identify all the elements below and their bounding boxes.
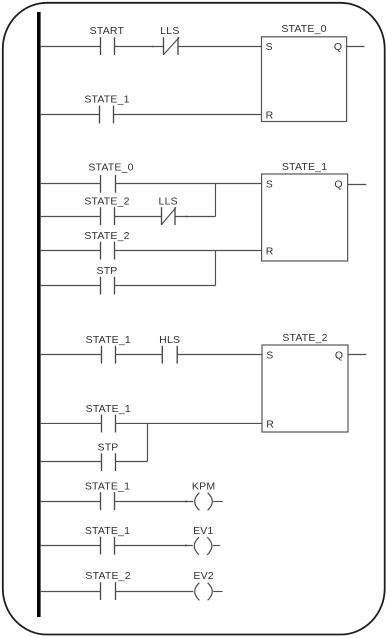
svg-text:STATE_1: STATE_1 xyxy=(85,480,130,492)
wire START to LLS xyxy=(115,46,164,48)
svg-text:Q: Q xyxy=(334,179,342,191)
wire HLS to S input of STATE_2 xyxy=(177,354,262,356)
contact STP xyxy=(102,453,116,471)
contact STATE_1 xyxy=(101,492,115,510)
svg-text:STATE_1: STATE_1 xyxy=(84,94,129,106)
svg-text:EV1: EV1 xyxy=(193,525,213,537)
contact STP xyxy=(101,277,115,295)
wire rung12 rail to STATE_2 contact xyxy=(40,591,101,593)
wire branch up to rung5 xyxy=(215,251,217,286)
wire branch up to rung3 xyxy=(215,184,217,217)
contact STATE_2 xyxy=(101,582,116,600)
contact STATE_2 xyxy=(101,207,115,225)
svg-text:STATE_1: STATE_1 xyxy=(86,334,131,346)
wire STATE_2 contact to R input of STATE_1 xyxy=(115,250,262,252)
wire STATE_0 contact to S input of STATE_1 xyxy=(116,183,262,185)
wire after coil KPM xyxy=(213,501,223,503)
svg-text:STATE_1: STATE_1 xyxy=(282,161,327,173)
wire STATE_1 contact to R input of STATE_2 xyxy=(116,422,263,424)
svg-text:STATE_2: STATE_2 xyxy=(85,570,130,582)
wire rung4 rail to STATE_2 contact xyxy=(40,216,101,218)
wire LLS to S input of STATE_0 xyxy=(178,46,262,48)
svg-text:Q: Q xyxy=(334,41,342,53)
svg-text:STP: STP xyxy=(97,441,118,453)
junction dot xyxy=(185,545,187,547)
svg-text:STP: STP xyxy=(96,265,117,277)
wire rung3 rail to STATE_0 contact xyxy=(40,183,101,185)
wire Q output of STATE_1 xyxy=(348,184,367,186)
contact STATE_1 xyxy=(102,415,116,433)
power rail xyxy=(37,12,41,617)
svg-text:S: S xyxy=(266,350,273,362)
svg-text:KPM: KPM xyxy=(192,480,215,492)
svg-text:R: R xyxy=(266,245,274,257)
coil KPM xyxy=(195,493,213,511)
junction dot xyxy=(185,501,187,503)
svg-text:LLS: LLS xyxy=(159,195,178,207)
wire rung9 rail to STP contact xyxy=(40,461,102,463)
wire after coil EV2 xyxy=(213,591,222,593)
wire STATE_2 contact to coil EV2 xyxy=(116,591,194,593)
wire Q output of STATE_2 xyxy=(348,354,366,356)
junction dot xyxy=(186,216,188,218)
svg-text:R: R xyxy=(266,418,274,430)
coil EV1 xyxy=(194,537,212,555)
svg-text:STATE_0: STATE_0 xyxy=(281,23,326,35)
wire rung8 rail to STATE_1 contact xyxy=(40,422,102,424)
svg-text:S: S xyxy=(266,41,273,53)
wire LLS to branch junction xyxy=(175,216,216,218)
contact STATE_1 xyxy=(102,346,116,364)
wire rung11 rail to STATE_1 contact xyxy=(40,545,101,547)
wire Q output of STATE_0 xyxy=(347,46,365,48)
wire rung7 rail to STATE_1 contact xyxy=(40,354,102,356)
contact HLS xyxy=(162,346,177,364)
svg-text:STATE_1: STATE_1 xyxy=(85,525,130,537)
wire STATE_1 contact to coil EV1 xyxy=(115,545,193,547)
svg-text:EV2: EV2 xyxy=(193,570,213,582)
wire rung2 rail to STATE_1 contact xyxy=(40,114,100,116)
wire STATE_1 contact to R input of STATE_0 xyxy=(114,114,262,116)
junction dot xyxy=(152,46,154,48)
wire STATE_1 contact to coil KPM xyxy=(115,501,194,503)
svg-text:Q: Q xyxy=(335,350,343,362)
svg-text:S: S xyxy=(266,179,273,191)
wire rung1 rail to START xyxy=(40,46,101,48)
svg-text:START: START xyxy=(90,25,125,37)
SR block STATE_2 xyxy=(262,332,348,432)
contact STATE_1 xyxy=(100,106,114,124)
SR block STATE_0 xyxy=(262,23,347,121)
svg-text:STATE_0: STATE_0 xyxy=(88,162,133,174)
wire STP to branch junction xyxy=(115,285,216,287)
svg-text:STATE_2: STATE_2 xyxy=(282,332,327,344)
wire STP to branch junction xyxy=(116,461,148,463)
wire STATE_1 contact to HLS xyxy=(116,354,163,356)
wire STATE_2 contact to LLS xyxy=(115,216,162,218)
svg-text:STATE_2: STATE_2 xyxy=(84,195,129,207)
svg-text:STATE_1: STATE_1 xyxy=(86,403,131,415)
wire branch up to rung8 xyxy=(147,423,149,461)
wire rung5 rail to STATE_2 contact xyxy=(40,250,101,252)
svg-text:LLS: LLS xyxy=(160,25,179,37)
svg-text:R: R xyxy=(266,109,274,121)
contact STATE_1 xyxy=(101,537,115,555)
svg-text:HLS: HLS xyxy=(159,334,180,346)
SR block STATE_1 xyxy=(262,161,348,261)
contact STATE_0 xyxy=(101,175,116,193)
NC contact LLS xyxy=(164,37,180,55)
wire rung6 rail to STP contact xyxy=(40,285,101,287)
wire rung10 rail to STATE_1 contact xyxy=(40,501,101,503)
svg-text:STATE_2: STATE_2 xyxy=(84,230,129,242)
NC contact LLS xyxy=(162,207,177,225)
coil EV2 xyxy=(195,583,213,601)
contact STATE_2 xyxy=(101,242,115,260)
wire after coil EV1 xyxy=(213,545,220,547)
contact START xyxy=(101,37,115,55)
